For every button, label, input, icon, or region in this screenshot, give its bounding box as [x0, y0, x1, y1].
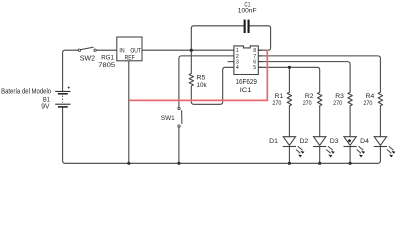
LED D4	[374, 137, 396, 158]
op IC1 16F629 body with notch	[234, 46, 258, 75]
LED D1	[283, 137, 305, 158]
junction node REF at rail	[127, 162, 130, 165]
red highlighted wire pin8 to ground	[129, 50, 267, 101]
junction node pin5 wire to R1	[288, 66, 291, 69]
wire right loop vertical to pin 8	[258, 28, 270, 50]
LED D2	[313, 137, 335, 158]
wire bottom ground rail	[65, 161, 380, 164]
svg-text:270: 270	[303, 100, 312, 107]
IC right pin stubs	[258, 50, 262, 67]
wire D1 to rail	[288, 147, 290, 163]
svg-text:270: 270	[272, 100, 281, 107]
wire R2 to D2	[319, 106, 321, 137]
svg-text:270: 270	[333, 100, 342, 107]
battery B1	[55, 87, 70, 107]
junction node D2 at rail	[318, 162, 321, 165]
junction node SW1 at rail	[177, 162, 180, 165]
wire D4 to rail corner	[379, 147, 381, 161]
wire SW2 to RG1 IN	[96, 49, 117, 51]
svg-text:D1: D1	[269, 138, 278, 145]
LED D3 inner dot	[348, 139, 351, 142]
svg-text:270: 270	[363, 100, 372, 107]
junction node at RG1 OUT / pin1 / R5	[190, 49, 193, 52]
wire IC pin 5 to R2 column	[258, 67, 319, 92]
wire D2 to rail	[319, 147, 321, 163]
wire battery top to SW2	[63, 50, 79, 91]
wire D3 to rail	[349, 147, 351, 163]
wire R3 to D3	[349, 106, 351, 137]
wire RG1 OUT to IC pin 1	[142, 49, 234, 51]
svg-text:OUT: OUT	[130, 48, 141, 54]
svg-text:7805: 7805	[98, 62, 115, 69]
wire IC pin 6 to R3 column	[258, 62, 350, 93]
wire top rail right segment from C1	[250, 26, 271, 29]
svg-text:B1: B1	[43, 97, 50, 104]
svg-text:10k: 10k	[197, 83, 208, 89]
resistor R4	[378, 92, 382, 105]
wire battery bottom to rail	[63, 107, 66, 163]
capacitor C1 plates	[244, 20, 246, 33]
svg-text:SW1: SW1	[161, 115, 175, 122]
svg-text:SW2: SW2	[80, 56, 95, 63]
switch SW2	[78, 47, 96, 51]
svg-text:9V: 9V	[41, 104, 50, 111]
svg-text:D3: D3	[330, 138, 339, 145]
wire junction drop to R1 column	[288, 67, 290, 92]
wire RG1 REF to ground rail	[128, 61, 130, 164]
wire top rail left segment to C1	[191, 26, 243, 29]
svg-text:RG1: RG1	[101, 55, 114, 62]
svg-text:IC1: IC1	[240, 87, 252, 94]
svg-text:100nF: 100nF	[238, 8, 257, 14]
resistor R3	[348, 92, 352, 105]
svg-text:5: 5	[253, 65, 256, 71]
svg-text:R5: R5	[197, 76, 207, 82]
wire left loop vertical (x=191.3)	[190, 28, 192, 73]
svg-text:D4: D4	[360, 138, 369, 145]
wire pin 3 stub	[228, 61, 234, 63]
resistor R1	[287, 92, 291, 105]
svg-text:4: 4	[236, 65, 239, 71]
wire IC pin 7 to R4 column	[258, 56, 380, 92]
switch SW1	[178, 107, 182, 127]
regulator RG1 7805 box	[117, 37, 142, 61]
svg-text:Batería del Modelo: Batería del Modelo	[1, 88, 51, 95]
resistor R5 10k	[189, 74, 193, 86]
wire IC pin 2 to SW1 corner	[179, 56, 234, 108]
svg-text:16F629: 16F629	[236, 77, 257, 86]
svg-text:IN: IN	[119, 48, 124, 54]
svg-text:D2: D2	[300, 138, 309, 145]
junction node D1 at rail	[288, 162, 291, 165]
resistor R2	[318, 92, 322, 105]
LED D3	[344, 137, 366, 158]
svg-text:REF: REF	[125, 56, 135, 62]
wire SW1 bottom to rail	[178, 127, 180, 163]
wire R5 bottom loop to IC pin 4	[191, 67, 234, 104]
wire R1 to D1	[288, 106, 290, 137]
junction node D3 at rail	[349, 162, 352, 165]
wire R4 to D4	[379, 106, 381, 137]
